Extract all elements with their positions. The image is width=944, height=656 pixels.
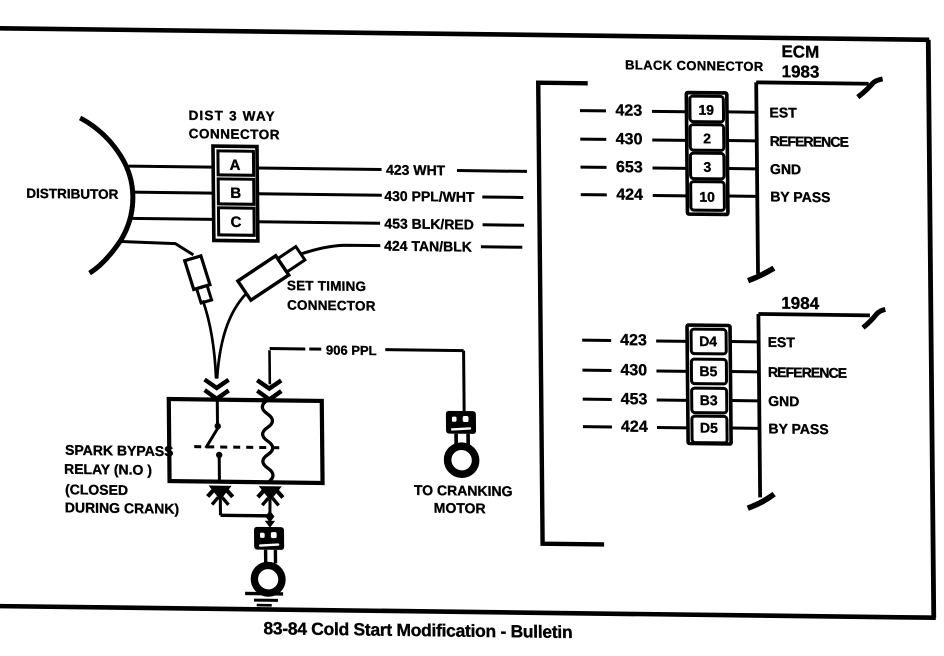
svg-text:83-84 Cold Start Modification: 83-84 Cold Start Modification - Bulletin	[263, 618, 572, 642]
svg-text:GND: GND	[768, 393, 799, 409]
svg-text:423 WHT: 423 WHT	[386, 162, 446, 179]
svg-text:ECM: ECM	[781, 42, 819, 61]
svg-text:BY PASS: BY PASS	[770, 188, 830, 205]
svg-text:453 BLK/RED: 453 BLK/RED	[384, 215, 474, 232]
svg-text:TO CRANKING: TO CRANKING	[414, 482, 513, 499]
svg-text:(CLOSED: (CLOSED	[65, 481, 128, 498]
svg-text:EST: EST	[768, 334, 796, 350]
svg-text:D4: D4	[699, 333, 717, 349]
svg-text:GND: GND	[770, 161, 801, 177]
svg-text:RELAY (N.O ): RELAY (N.O )	[64, 461, 152, 478]
svg-text:653: 653	[616, 159, 643, 176]
svg-text:430 PPL/WHT: 430 PPL/WHT	[384, 188, 475, 205]
svg-text:CONNECTOR: CONNECTOR	[189, 126, 280, 142]
svg-text:BLACK CONNECTOR: BLACK CONNECTOR	[625, 57, 764, 74]
svg-text:424: 424	[616, 187, 643, 204]
svg-text:430: 430	[620, 362, 647, 379]
svg-text:B: B	[230, 185, 241, 202]
svg-text:EST: EST	[769, 104, 797, 120]
svg-text:DIST 3 WAY: DIST 3 WAY	[189, 108, 276, 124]
svg-text:B3: B3	[700, 392, 718, 408]
svg-text:423: 423	[620, 332, 647, 349]
svg-text:424 TAN/BLK: 424 TAN/BLK	[384, 238, 472, 255]
svg-text:1983: 1983	[781, 62, 819, 81]
svg-text:3: 3	[703, 159, 711, 175]
svg-text:C: C	[231, 214, 242, 231]
svg-text:B5: B5	[699, 363, 717, 379]
svg-text:1984: 1984	[781, 294, 820, 313]
svg-text:D5: D5	[700, 420, 718, 436]
svg-text:19: 19	[698, 102, 714, 118]
svg-text:906 PPL: 906 PPL	[326, 343, 377, 359]
svg-text:430: 430	[616, 131, 643, 148]
svg-text:SPARK BYPASS: SPARK BYPASS	[65, 442, 174, 459]
svg-text:BY PASS: BY PASS	[768, 420, 828, 437]
svg-text:2: 2	[703, 130, 711, 146]
svg-text:423: 423	[615, 102, 642, 119]
svg-text:DISTRIBUTOR: DISTRIBUTOR	[26, 186, 118, 202]
svg-text:424: 424	[621, 419, 648, 436]
svg-text:DURING CRANK): DURING CRANK)	[65, 499, 179, 516]
svg-text:CONNECTOR: CONNECTOR	[287, 298, 376, 314]
svg-text:MOTOR: MOTOR	[434, 500, 486, 517]
svg-text:REFERENCE: REFERENCE	[768, 364, 847, 381]
svg-text:SET TIMING: SET TIMING	[287, 278, 366, 294]
svg-text:REFERENCE: REFERENCE	[770, 133, 849, 150]
svg-text:A: A	[229, 157, 240, 174]
svg-text:10: 10	[699, 189, 715, 205]
svg-text:453: 453	[621, 391, 648, 408]
